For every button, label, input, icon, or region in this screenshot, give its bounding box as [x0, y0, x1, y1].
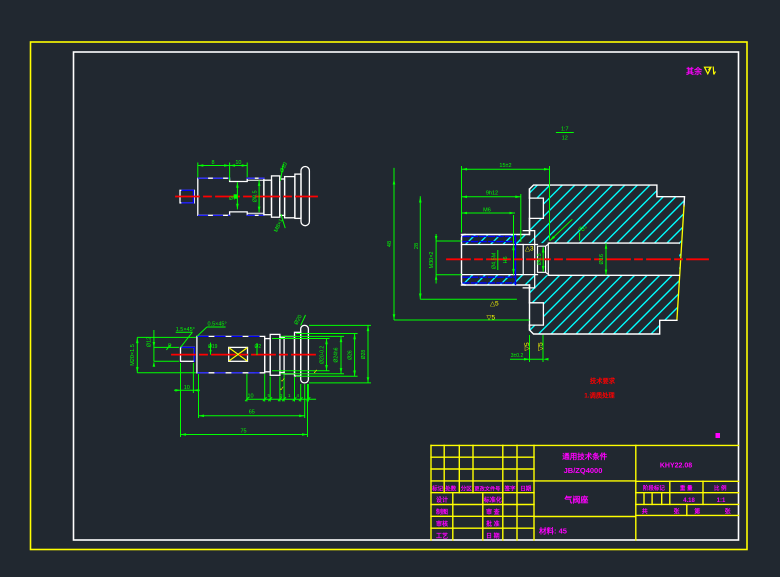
svg-text:JB/ZQ4000: JB/ZQ4000 [564, 466, 603, 475]
counterbore hole through boss [462, 244, 538, 246]
dim 65 [199, 415, 305, 417]
svg-text:Ø28: Ø28 [361, 350, 367, 360]
chamfer leaders [176, 331, 193, 333]
top-right roughness note [686, 66, 716, 76]
svg-text:Ø8.5: Ø8.5 [253, 190, 259, 202]
svg-text:标记: 标记 [431, 484, 444, 492]
centerline [172, 354, 315, 356]
hidden thread lines (blue dashed) [199, 177, 230, 179]
extension lines down to tick row [198, 374, 200, 418]
svg-text:H6: H6 [503, 256, 509, 263]
left rows [431, 456, 534, 458]
svg-text:张: 张 [673, 507, 680, 515]
svg-text:M20×1.5: M20×1.5 [130, 344, 136, 366]
stub dia dim [153, 330, 155, 361]
seat hole box 1 [523, 245, 535, 275]
stub [181, 347, 195, 361]
rings [265, 339, 271, 372]
outer frame of title block [431, 444, 739, 446]
title block texts (magenta) [431, 451, 731, 540]
svg-text:✓: ✓ [281, 378, 286, 384]
svg-text:工艺: 工艺 [436, 532, 448, 540]
svg-text:Ø20-0.2: Ø20-0.2 [319, 346, 325, 364]
stub length dim 10 [180, 363, 182, 437]
svg-text:审核: 审核 [436, 520, 448, 528]
yellow finish symbols on section view [487, 246, 545, 351]
svg-text:Ø7: Ø7 [229, 196, 236, 202]
svg-text:45°: 45° [578, 227, 588, 233]
svg-text:签字: 签字 [503, 484, 516, 492]
dim phi16 vertical in bore [605, 243, 607, 275]
svg-text:KHY22.08: KHY22.08 [660, 462, 692, 469]
svg-text:✓: ✓ [280, 387, 285, 393]
counterbore step upper [523, 231, 535, 245]
svg-text:阶段标记: 阶段标记 [643, 484, 666, 492]
svg-text:28: 28 [414, 243, 420, 249]
svg-text:3±0.2: 3±0.2 [511, 353, 524, 359]
svg-text:Ø16: Ø16 [599, 254, 605, 264]
svg-text:材料: 45: 材料: 45 [539, 526, 567, 536]
svg-text:▽5: ▽5 [524, 342, 531, 351]
extension lines to right dims [272, 338, 330, 340]
top view dim arrows [198, 164, 261, 212]
svg-text:48: 48 [387, 241, 393, 247]
stub [180, 190, 194, 203]
technical requirement text (red) [584, 376, 616, 400]
centerline [447, 258, 708, 260]
svg-text:第: 第 [693, 507, 700, 515]
oblique ticks on small dim row [245, 397, 310, 401]
svg-text:通用技术条件: 通用技术条件 [562, 451, 607, 461]
svg-text:比 例: 比 例 [714, 484, 727, 492]
keyway symbol box [229, 347, 248, 361]
svg-text:1:1: 1:1 [717, 498, 726, 504]
svg-text:日 期: 日 期 [486, 532, 500, 540]
centerline [176, 196, 317, 198]
magenta marker square above title block [716, 433, 721, 438]
svg-text:张: 张 [725, 507, 732, 515]
svg-text:共: 共 [642, 507, 648, 515]
svg-text:Ø2: Ø2 [255, 344, 262, 350]
right side vertical dims [326, 339, 328, 371]
left columns lower [452, 493, 454, 540]
dim phi6.5 vertical in seat [542, 247, 544, 272]
dim phi4.5 vertical inside boss [513, 245, 515, 275]
svg-text:1.5×45°: 1.5×45° [176, 327, 195, 333]
block outline lower right [462, 285, 677, 334]
svg-text:Ø6.5: Ø6.5 [537, 253, 543, 265]
boss left face [462, 235, 466, 286]
top-right leader [301, 315, 306, 325]
svg-text:处数: 处数 [444, 484, 457, 492]
entry cone [546, 243, 550, 275]
center box [533, 445, 535, 540]
tick row [247, 398, 316, 400]
dim 28 vertical [419, 196, 421, 299]
svg-text:Ø4.5M: Ø4.5M [491, 252, 497, 269]
svg-text:分区: 分区 [461, 484, 473, 492]
svg-text:△5: △5 [490, 301, 499, 308]
dim 48 vertical [393, 168, 395, 320]
svg-text:技术要求: 技术要求 [590, 376, 616, 385]
bottom small dim 3 [529, 335, 531, 362]
yellow finish marks on bottom view [280, 370, 319, 393]
right face slanted (yellow revision line) [677, 206, 684, 320]
left M20 dim [136, 337, 138, 372]
section dim arrows [393, 168, 608, 361]
left edge segments of block [529, 189, 531, 198]
svg-text:8: 8 [211, 160, 214, 166]
svg-text:M30×2: M30×2 [429, 252, 435, 269]
svg-text:4.18: 4.18 [683, 498, 695, 504]
svg-text:▽5: ▽5 [487, 315, 496, 322]
notch lower-left [530, 303, 544, 325]
bottom view dim arrows [136, 325, 369, 435]
tiny leader near stub [166, 345, 170, 350]
rings [264, 180, 272, 215]
dim 75 [181, 434, 308, 436]
svg-text:1:7: 1:7 [561, 127, 569, 133]
45 deg leader [550, 219, 572, 240]
external thread dashed lines on boss [463, 235, 516, 237]
svg-text:制图: 制图 [436, 508, 448, 516]
right box columns [669, 481, 671, 504]
dim 15 top line [462, 168, 550, 170]
svg-text:日期: 日期 [520, 484, 532, 492]
extension verticals [461, 166, 463, 233]
svg-text:重 量: 重 量 [680, 484, 693, 492]
svg-text:标准化: 标准化 [483, 496, 502, 504]
counterbore step lower [523, 275, 535, 288]
svg-text:Ø12: Ø12 [147, 337, 153, 347]
dim 9h12 line [462, 196, 521, 198]
body [197, 336, 265, 372]
small vertical dims inside body [210, 343, 212, 355]
svg-text:审 查: 审 查 [486, 508, 500, 516]
svg-text:75: 75 [240, 429, 246, 435]
svg-text:10: 10 [184, 385, 190, 391]
block outline [462, 185, 685, 234]
bottom view dimensions [137, 315, 371, 437]
svg-text:Ø19: Ø19 [208, 344, 218, 350]
svg-text:R: R [168, 344, 172, 350]
svg-text:12: 12 [562, 136, 568, 142]
notch upper-left [530, 198, 544, 218]
dim M6 line [462, 212, 516, 214]
svg-text:✓: ✓ [313, 370, 318, 376]
svg-text:15±2: 15±2 [499, 163, 511, 169]
section dim texts [387, 127, 605, 360]
taper 1:7 mark [556, 132, 574, 134]
top view dimensions [198, 163, 285, 229]
left columns upper (grid + header) [443, 445, 445, 492]
svg-text:1.调质处理: 1.调质处理 [584, 391, 615, 400]
main bore [550, 242, 680, 244]
svg-text:Ø26: Ø26 [347, 350, 353, 360]
body outline [198, 178, 264, 215]
bottom view dim texts [130, 314, 367, 435]
svg-text:其余: 其余 [686, 66, 703, 76]
svg-text:9h12: 9h12 [486, 191, 498, 197]
svg-text:65: 65 [249, 409, 255, 415]
svg-text:10: 10 [247, 394, 253, 400]
svg-text:M6: M6 [483, 207, 491, 213]
right box [635, 445, 637, 540]
seat hole box 2 [538, 246, 546, 272]
svg-text:△3: △3 [525, 246, 534, 253]
svg-text:Ø24h6: Ø24h6 [334, 347, 340, 362]
svg-text:10: 10 [235, 160, 241, 166]
svg-text:0.5×45°: 0.5×45° [208, 321, 227, 327]
svg-text:设计: 设计 [436, 496, 448, 504]
dim M30x2 vertical [435, 234, 437, 284]
svg-text:▽5: ▽5 [538, 342, 545, 351]
white drawing border [74, 52, 739, 540]
svg-text:更改文件号: 更改文件号 [474, 484, 500, 492]
svg-text:气阀座: 气阀座 [563, 495, 588, 505]
top view dim texts [211, 160, 289, 233]
svg-text:批 准: 批 准 [486, 520, 500, 528]
